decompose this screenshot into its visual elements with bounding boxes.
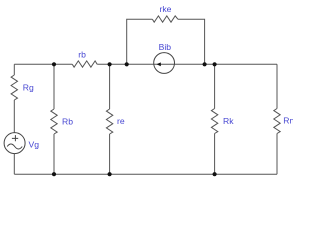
- svg-text:Rg: Rg: [23, 83, 34, 93]
- svg-text:rb: rb: [78, 50, 86, 60]
- svg-text:Vg: Vg: [29, 139, 40, 149]
- svg-text:Rb: Rb: [62, 116, 73, 126]
- svg-text:Bib: Bib: [159, 42, 172, 52]
- svg-text:Rk: Rk: [223, 116, 234, 126]
- svg-text:rke: rke: [160, 4, 172, 14]
- svg-text:Rn: Rn: [283, 116, 293, 126]
- svg-text:re: re: [117, 116, 125, 126]
